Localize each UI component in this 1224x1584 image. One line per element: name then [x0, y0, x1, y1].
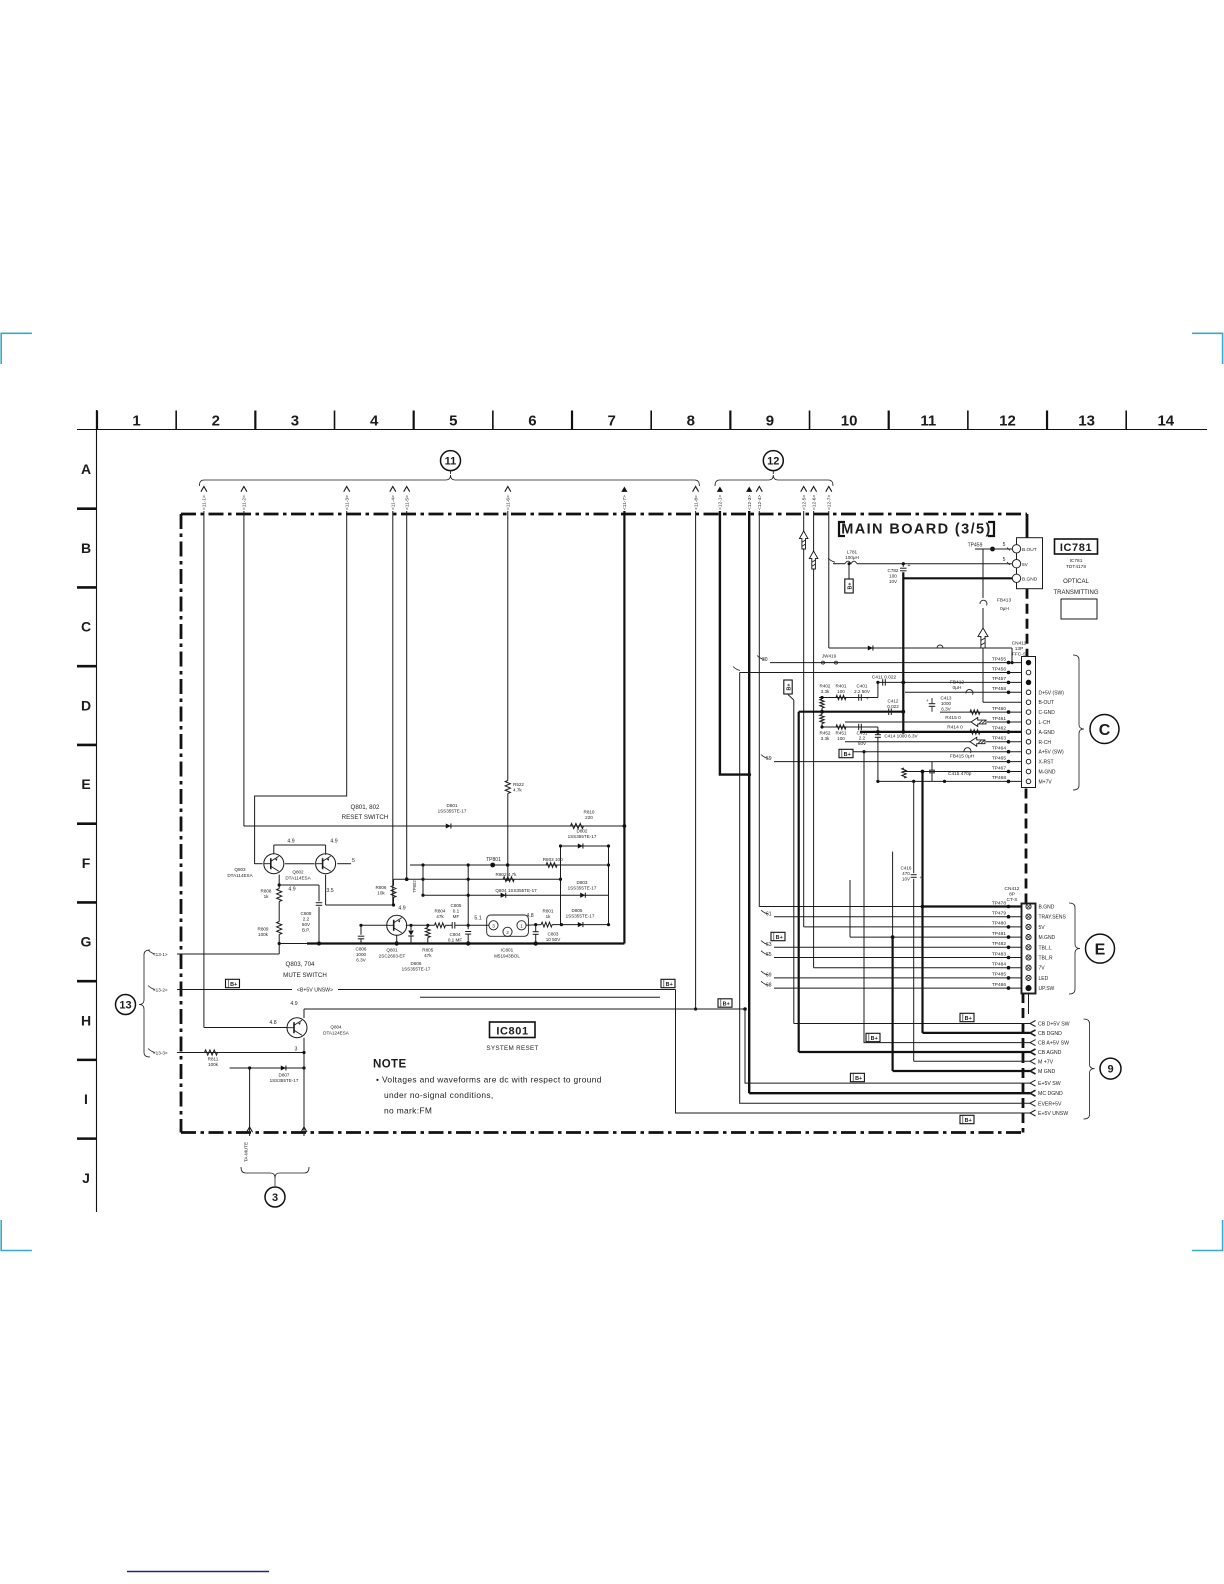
svg-text:C416: C416 — [901, 866, 912, 871]
svg-text:5.1: 5.1 — [474, 916, 481, 922]
wire B+ stub — [848, 564, 850, 579]
wire V22 — [913, 781, 915, 873]
svg-text:TP458: TP458 — [992, 686, 1006, 692]
wire 11-1 drop — [203, 511, 205, 1028]
svg-text:3.3k: 3.3k — [821, 736, 830, 741]
wire — [1011, 648, 1013, 663]
svg-text:R414 0: R414 0 — [947, 725, 963, 731]
net tag row2 — [733, 667, 740, 671]
svg-text:1: 1 — [520, 923, 523, 928]
svg-text:50V: 50V — [302, 922, 311, 927]
wire — [278, 935, 280, 955]
svg-text:100k: 100k — [208, 1062, 219, 1067]
svg-text:C411 0.022: C411 0.022 — [872, 675, 897, 681]
net tag <12-4> — [756, 487, 762, 492]
wire — [526, 924, 541, 927]
svg-text:FB413: FB413 — [997, 598, 1011, 604]
svg-text:TP465: TP465 — [992, 755, 1006, 761]
svg-text:Q803: Q803 — [234, 867, 246, 872]
svg-text:TP455: TP455 — [992, 656, 1006, 662]
wire V16 drop — [740, 673, 1030, 1104]
connector CN412 pin 6 — [1026, 955, 1031, 960]
svg-text:C401: C401 — [857, 684, 868, 689]
wire B.OUT — [975, 548, 1017, 550]
net tag <11-2> — [241, 487, 247, 492]
svg-text:R809: R809 — [258, 927, 269, 932]
svg-text:D807: D807 — [279, 1073, 290, 1078]
svg-text:M+7V: M+7V — [1039, 779, 1053, 785]
svg-text:UP.SW: UP.SW — [1039, 986, 1055, 992]
svg-text:13: 13 — [1078, 413, 1095, 430]
svg-text:CB DGND: CB DGND — [1038, 1031, 1062, 1037]
net tag <12-3> — [746, 487, 752, 492]
wire 7V row — [814, 967, 1022, 969]
svg-text:B+: B+ — [855, 1076, 862, 1082]
svg-text:TBL.L: TBL.L — [1039, 945, 1053, 951]
svg-text:<11-4>: <11-4> — [391, 495, 397, 510]
svg-text:220: 220 — [585, 815, 593, 820]
connector CN411 pin 1 — [1026, 660, 1031, 665]
svg-text:TRAY.SENS: TRAY.SENS — [1039, 915, 1067, 921]
wire — [877, 742, 879, 782]
svg-text:4.9: 4.9 — [290, 1001, 297, 1007]
svg-text:6.3V: 6.3V — [356, 958, 366, 963]
wire 11-7 drop (bold) — [623, 511, 625, 944]
svg-text:R522: R522 — [513, 782, 524, 787]
svg-text:TP479: TP479 — [992, 911, 1006, 917]
svg-text:DTA124ESA: DTA124ESA — [323, 1031, 350, 1036]
wire 13-3 — [177, 1052, 304, 1054]
svg-text:RESET SWITCH: RESET SWITCH — [342, 814, 389, 821]
resistor R811 — [205, 1050, 218, 1055]
off-board net M GND — [1030, 1068, 1036, 1074]
wire D804 rail — [423, 894, 609, 896]
resistor R416 — [902, 768, 906, 778]
wire B-OUT row — [983, 701, 1022, 703]
svg-text:TP467: TP467 — [992, 765, 1006, 771]
wire 12-6 drop — [813, 511, 815, 968]
svg-text:M.GND: M.GND — [1039, 935, 1056, 941]
svg-text:1k: 1k — [264, 894, 270, 899]
svg-text:under no-signal conditions,: under no-signal conditions, — [384, 1090, 494, 1100]
junction — [902, 562, 905, 565]
svg-text:R401: R401 — [836, 684, 847, 689]
svg-text:R810: R810 — [584, 810, 595, 815]
wire A+5V row — [853, 751, 1022, 753]
junction — [743, 1007, 747, 1011]
svg-text:1SS355TE-17: 1SS355TE-17 — [438, 809, 467, 814]
svg-text:R402: R402 — [820, 684, 831, 689]
svg-text:4.9: 4.9 — [288, 887, 295, 893]
wire collector Q804 — [303, 1038, 305, 1068]
bold gnd rail — [799, 711, 904, 713]
wire 13-2 B+5V UNSW rail — [177, 989, 292, 991]
svg-text:B+: B+ — [871, 1036, 878, 1042]
wire FB413 column — [982, 553, 984, 598]
off-board net E+5V UNSW — [1030, 1110, 1036, 1116]
svg-text:FB415 0μH: FB415 0μH — [950, 754, 975, 760]
svg-text:2SC2603-EF: 2SC2603-EF — [379, 954, 406, 959]
svg-text:Q804 1SS355TE-17: Q804 1SS355TE-17 — [495, 888, 537, 893]
net tag <11-7> — [621, 487, 627, 492]
svg-text:M51943BOL: M51943BOL — [494, 954, 520, 959]
B+ mark — [960, 1013, 974, 1021]
svg-text:2.2: 2.2 — [859, 736, 866, 741]
svg-text:1SS355TE-17: 1SS355TE-17 — [568, 886, 597, 891]
svg-text:NOTE: NOTE — [373, 1059, 407, 1071]
svg-text:C-GND: C-GND — [1039, 710, 1056, 716]
wire — [608, 846, 610, 925]
svg-text:TP801: TP801 — [486, 857, 501, 863]
wire 12-3 drop (bold) — [748, 511, 750, 1093]
wire M+7V row — [878, 780, 1022, 782]
svg-text:100: 100 — [837, 736, 845, 741]
svg-text:5V: 5V — [1022, 562, 1029, 568]
svg-text:TDT4178: TDT4178 — [1066, 564, 1086, 570]
svg-text:TP483: TP483 — [992, 951, 1006, 957]
svg-text:TRANSMITTING: TRANSMITTING — [1054, 590, 1099, 596]
svg-text:B+: B+ — [776, 935, 783, 941]
wire — [303, 1009, 305, 1018]
svg-text:IC781: IC781 — [1070, 558, 1083, 564]
svg-text:TBL.R: TBL.R — [1039, 956, 1054, 962]
net tag <12-6> — [811, 487, 817, 492]
svg-text:10: 10 — [841, 413, 858, 430]
svg-text:<12-3>: <12-3> — [747, 495, 753, 510]
net tag <11-3> — [344, 487, 350, 492]
wire M-GND row — [903, 771, 1021, 773]
svg-text:Q801: Q801 — [386, 948, 398, 953]
wire X-RST row — [774, 761, 1022, 763]
svg-text:12: 12 — [999, 413, 1016, 430]
svg-text:4.9: 4.9 — [398, 906, 405, 912]
off-board net CB D+5V SW — [1030, 1021, 1036, 1027]
connector CN412 pin 1 — [1026, 904, 1031, 909]
wire R802 rail — [394, 878, 561, 880]
svg-text:30: 30 — [762, 657, 768, 663]
svg-text:Q804: Q804 — [330, 1025, 342, 1030]
svg-text:B+: B+ — [230, 982, 237, 988]
svg-text:B.GND: B.GND — [1039, 905, 1055, 911]
wire below CN412 — [1028, 994, 1030, 1015]
wire V23 (bold) — [921, 772, 923, 1033]
svg-text:<13-1>: <13-1> — [153, 952, 168, 957]
svg-text:F: F — [82, 855, 91, 871]
brace for C — [1073, 655, 1084, 790]
svg-text:R801: R801 — [543, 909, 554, 914]
wire collector rail — [304, 1008, 745, 1010]
svg-text:100μH: 100μH — [845, 555, 859, 560]
svg-text:10V: 10V — [889, 579, 898, 584]
B+ mark — [850, 1073, 864, 1081]
wire 11-3 drop — [255, 511, 347, 864]
wire 12-7 drop — [828, 511, 830, 648]
junction — [891, 935, 895, 939]
net tag <11-8> — [693, 487, 699, 492]
svg-text:R804: R804 — [435, 909, 446, 914]
net tag <12-7> — [826, 487, 832, 492]
svg-text:L781: L781 — [847, 550, 858, 555]
svg-text:CN412: CN412 — [1005, 886, 1020, 892]
wire 11-8 drop — [695, 511, 697, 1009]
connector CN411 pin 13 — [1026, 779, 1031, 784]
net tag <11-1> — [201, 487, 207, 492]
svg-text:Q803, 704: Q803, 704 — [286, 961, 315, 968]
svg-text:5: 5 — [449, 413, 457, 430]
wire C-GND row — [940, 711, 1022, 713]
wire A-GND row (bold) — [860, 731, 1022, 733]
svg-text:CB A+5V SW: CB A+5V SW — [1038, 1041, 1069, 1047]
svg-text:61: 61 — [766, 912, 772, 918]
svg-text:12: 12 — [767, 456, 779, 468]
off-board net EVER+5V — [1030, 1100, 1036, 1106]
svg-text:11: 11 — [445, 456, 457, 468]
connector CN412 pin 5 — [1026, 945, 1031, 950]
page coordinate rulers — [77, 429, 1207, 431]
emitter rail — [274, 844, 326, 846]
svg-text:1k: 1k — [546, 914, 552, 919]
svg-text:TP482: TP482 — [992, 941, 1006, 947]
svg-text:J: J — [82, 1170, 90, 1186]
wire E+5V SW — [745, 1009, 1030, 1083]
svg-text:4.7k: 4.7k — [513, 788, 522, 793]
svg-text:OPTICAL: OPTICAL — [1063, 579, 1089, 585]
optical device connector — [1017, 538, 1043, 589]
svg-text:CN411: CN411 — [1012, 641, 1027, 647]
svg-text:C414 1000 6.3V: C414 1000 6.3V — [884, 734, 918, 739]
wire 11-5 drop — [406, 511, 408, 879]
svg-text:TP456: TP456 — [992, 666, 1006, 672]
svg-text:13: 13 — [119, 999, 131, 1011]
svg-text:B-OUT: B-OUT — [1039, 700, 1055, 706]
B+ mark — [839, 749, 853, 757]
svg-text:5: 5 — [352, 858, 355, 864]
wire — [560, 846, 562, 925]
svg-text:8: 8 — [687, 413, 695, 430]
ground rail (bold) — [307, 942, 624, 944]
svg-text:+: + — [926, 698, 929, 703]
svg-text:IC781: IC781 — [1060, 542, 1092, 554]
svg-text:C415 470p: C415 470p — [948, 771, 972, 777]
svg-text:MAIN BOARD (3/5): MAIN BOARD (3/5) — [841, 522, 992, 538]
svg-text:TP478: TP478 — [992, 900, 1006, 906]
svg-text:4: 4 — [370, 413, 379, 430]
svg-text:<11-5>: <11-5> — [405, 495, 411, 510]
svg-text:3.3k: 3.3k — [821, 689, 830, 694]
svg-text:1000: 1000 — [356, 952, 367, 957]
node E callout — [1086, 934, 1115, 963]
wire 11-2 drop — [243, 511, 245, 826]
svg-text:9: 9 — [766, 413, 774, 430]
svg-text:SYSTEM RESET: SYSTEM RESET — [486, 1045, 538, 1052]
svg-text:Q802: Q802 — [292, 870, 304, 875]
svg-text:R811: R811 — [208, 1057, 219, 1062]
B+ mark vertical — [784, 680, 792, 694]
node C callout — [1090, 715, 1119, 744]
wire base Q801 — [361, 924, 388, 926]
off-board arrow R-CH — [970, 737, 985, 746]
transistor Q803 — [264, 854, 284, 874]
svg-text:63: 63 — [766, 942, 772, 948]
crop mark top-left — [1, 333, 32, 364]
svg-text:7V: 7V — [1039, 966, 1046, 972]
wire base Q804 — [204, 1027, 287, 1029]
connector CN411 pin 3 — [1026, 680, 1031, 685]
wire D+5V row — [905, 691, 1022, 693]
B+ mark — [661, 979, 675, 987]
svg-text:E+5V UNSW: E+5V UNSW — [1038, 1111, 1068, 1117]
svg-text:R-CH: R-CH — [1039, 740, 1052, 746]
svg-text:68: 68 — [766, 983, 772, 989]
node group 3 callout — [241, 1167, 309, 1178]
svg-text:R803 100: R803 100 — [543, 857, 563, 862]
svg-text:TP457: TP457 — [992, 676, 1006, 682]
wire 12-4 drop — [758, 511, 760, 907]
svg-text:D805: D805 — [572, 908, 583, 913]
connector CN411 pin 6 — [1026, 710, 1031, 715]
wire — [279, 943, 307, 945]
svg-text:<B+5V UNSW>: <B+5V UNSW> — [297, 987, 333, 993]
svg-text:I: I — [84, 1091, 88, 1107]
reset IC U-block — [487, 915, 529, 936]
svg-text:8P: 8P — [1009, 892, 1015, 898]
svg-text:B+: B+ — [723, 1001, 730, 1007]
svg-text:R415 0: R415 0 — [945, 715, 961, 721]
svg-text:0.1 MF: 0.1 MF — [448, 938, 462, 943]
svg-text:2: 2 — [212, 413, 220, 430]
B+ mark vertical — [845, 579, 853, 593]
svg-text:R452: R452 — [820, 731, 831, 736]
svg-text:TP802: TP802 — [412, 880, 417, 893]
svg-text:100: 100 — [837, 689, 845, 694]
svg-text:H: H — [81, 1012, 91, 1028]
wire base net — [467, 865, 469, 929]
connector CN411 pin 10 — [1026, 749, 1031, 754]
wire V19 (bold) — [798, 712, 800, 1052]
svg-text:C803: C803 — [548, 932, 559, 937]
svg-text:47k: 47k — [424, 953, 432, 958]
wire TA-MUTE drop — [249, 1068, 251, 1136]
svg-text:TP462: TP462 — [992, 726, 1006, 732]
connector CN411 pin 8 — [1026, 730, 1031, 735]
wire V21 (bold) — [891, 937, 893, 1071]
svg-text:B+: B+ — [666, 982, 673, 988]
svg-text:5: 5 — [1003, 542, 1006, 548]
svg-text:DTA114ESA: DTA114ESA — [227, 873, 253, 878]
off-board net CB DGND — [1030, 1030, 1036, 1036]
svg-text:3: 3 — [295, 1047, 298, 1053]
wire TP456 row — [740, 672, 1022, 674]
node 9 callout — [1100, 1058, 1121, 1079]
svg-text:<12-1>: <12-1> — [718, 495, 724, 510]
svg-text:9: 9 — [1107, 1064, 1113, 1076]
svg-text:13P: 13P — [1015, 646, 1024, 652]
node group 13 callout — [116, 995, 136, 1015]
junction — [876, 730, 880, 734]
wire collector Q802 — [325, 875, 327, 905]
svg-text:C808: C808 — [301, 911, 312, 916]
svg-text:<11-6>: <11-6> — [506, 495, 512, 510]
svg-text:<11-3>: <11-3> — [345, 495, 351, 510]
svg-text:D806: D806 — [411, 961, 422, 966]
svg-text:A: A — [81, 461, 91, 477]
brace for 9 — [1084, 1019, 1095, 1119]
wire TP457 row — [878, 681, 1022, 683]
svg-text:B: B — [81, 540, 91, 556]
svg-text:C806: C806 — [356, 947, 367, 952]
wire L-CH row — [845, 721, 971, 723]
svg-text:5V: 5V — [1039, 925, 1046, 931]
svg-text:B.OUT: B.OUT — [1022, 547, 1037, 553]
svg-text:M +7V: M +7V — [1038, 1059, 1054, 1065]
off-board arrow — [809, 551, 818, 569]
svg-text:C804: C804 — [450, 932, 461, 937]
net tag <12-1> — [717, 487, 723, 492]
svg-text:R451: R451 — [836, 731, 847, 736]
svg-text:1SS355TE-17: 1SS355TE-17 — [270, 1078, 299, 1083]
connector CN412 pin 9 — [1026, 986, 1031, 991]
svg-text:TP463: TP463 — [992, 736, 1006, 742]
svg-text:D803: D803 — [577, 880, 588, 885]
svg-text:MC DGND: MC DGND — [1038, 1091, 1063, 1097]
wire B.GND (bold) — [903, 577, 1016, 579]
svg-text:R802 4.7k: R802 4.7k — [496, 872, 518, 877]
svg-text:C: C — [81, 619, 91, 635]
svg-text:6.3V: 6.3V — [941, 707, 951, 712]
transistor Q802 — [316, 854, 336, 874]
wire 12-1 drop (bold) — [720, 511, 749, 775]
svg-text:IC801: IC801 — [501, 948, 514, 953]
off-board arrow — [978, 628, 988, 648]
svg-text:7: 7 — [607, 413, 615, 430]
svg-text:11: 11 — [920, 413, 936, 430]
svg-text:<11-7>: <11-7> — [622, 495, 628, 510]
connector CN411 pin 7 — [1026, 720, 1031, 725]
svg-text:L-CH: L-CH — [1039, 720, 1051, 726]
resistor R806 — [391, 886, 396, 898]
transistor Q804 — [287, 1018, 307, 1038]
wire V21a — [892, 852, 894, 938]
svg-text:<11-2>: <11-2> — [242, 495, 248, 510]
node group 11 callout — [441, 451, 461, 471]
svg-text:C782: C782 — [888, 568, 899, 573]
svg-text:1SS355TE-17: 1SS355TE-17 — [566, 914, 595, 919]
off-board net CB AGND — [1030, 1049, 1036, 1055]
connector CN412 pin 4 — [1026, 935, 1031, 940]
capacitor C808 — [316, 902, 323, 904]
svg-text:A+5V (SW): A+5V (SW) — [1039, 750, 1064, 756]
svg-text:1000: 1000 — [941, 701, 952, 706]
svg-text:470: 470 — [902, 871, 910, 876]
brace for E — [1069, 903, 1080, 994]
off-board net M +7V — [1030, 1058, 1036, 1064]
wire — [360, 925, 362, 934]
main board title — [839, 522, 845, 536]
wire M.GND row4 — [850, 936, 1022, 938]
crop mark bottom-left — [1, 1220, 32, 1251]
junction — [747, 773, 751, 777]
wire TP455 row — [770, 662, 1022, 664]
svg-text:1SS355TE-17: 1SS355TE-17 — [568, 834, 597, 839]
resistor R809 — [277, 922, 282, 935]
junction — [302, 1051, 305, 1054]
wire 12-4 to CN412 — [759, 906, 1021, 908]
connector CN411 pin 11 — [1026, 759, 1031, 764]
crop mark bottom-right — [1192, 1220, 1223, 1251]
off-board arrow — [247, 1127, 253, 1132]
svg-text:100: 100 — [889, 574, 897, 579]
svg-text:TP461: TP461 — [992, 716, 1006, 722]
